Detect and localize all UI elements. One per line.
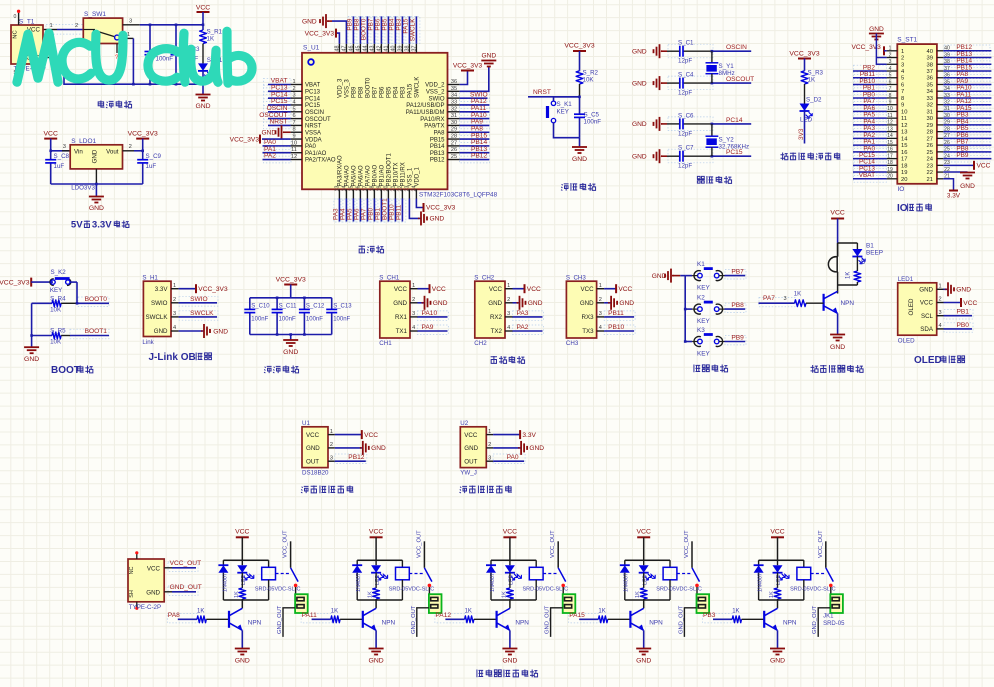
svg-text:1: 1 <box>488 429 491 435</box>
svg-text:26: 26 <box>451 147 457 153</box>
pin 45 PB8 (top) <box>359 44 361 53</box>
svg-text:PB8: PB8 <box>731 302 744 309</box>
wire node PA6 (IO left) <box>853 110 887 112</box>
svg-text:SRD-05VDC-SL-C: SRD-05VDC-SL-C <box>790 587 836 593</box>
svg-text:9: 9 <box>889 99 892 105</box>
pin 47 VSS_3 (top) <box>345 44 347 53</box>
svg-text:NPN: NPN <box>649 619 663 626</box>
transistor Q NPN (alarm) <box>822 294 824 311</box>
svg-text:GND: GND <box>283 349 298 356</box>
wire node PB10 (IO left) <box>853 83 887 85</box>
pin 10 (IO left) <box>887 110 898 112</box>
svg-text:27: 27 <box>451 140 457 146</box>
pin 3 RX2 (CH2) <box>505 316 513 318</box>
svg-text:D: D <box>861 260 866 266</box>
svg-text:10K: 10K <box>50 307 62 314</box>
svg-text:2: 2 <box>75 23 78 29</box>
pin 21 PB10/TX (bottom) <box>394 189 396 198</box>
title 声光报警电路 <box>811 365 819 373</box>
svg-text:PA7: PA7 <box>763 295 775 302</box>
svg-text:PC15: PC15 <box>305 103 321 109</box>
svg-text:9: 9 <box>901 103 904 109</box>
svg-text:GND_OUT: GND_OUT <box>277 605 283 634</box>
svg-text:S_K2: S_K2 <box>51 269 67 276</box>
svg-text:36: 36 <box>451 79 457 85</box>
svg-text:SWIO: SWIO <box>151 300 168 307</box>
pin 31 (IO right) <box>937 110 943 112</box>
svg-text:1: 1 <box>901 49 904 55</box>
svg-text:1K: 1K <box>207 36 215 43</box>
svg-text:PB9: PB9 <box>956 152 969 159</box>
svg-text:7: 7 <box>292 120 295 126</box>
svg-text:OSCIN: OSCIN <box>726 44 747 51</box>
svg-text:VCC: VCC <box>977 163 991 170</box>
capacitor S_C5 100nF <box>579 97 581 114</box>
wire node PB3 (IO right) <box>943 117 991 119</box>
wire S_SW1 pin1 down to GND rail <box>123 37 134 39</box>
pin 25 (IO right) <box>937 151 943 153</box>
svg-text:VCC_3V3: VCC_3V3 <box>128 131 158 138</box>
svg-text:2: 2 <box>889 52 892 58</box>
svg-text:BOOT1: BOOT1 <box>85 328 108 335</box>
relay coil SRD-05VDC-SL-C (PA12) <box>535 560 537 567</box>
svg-text:PB1: PB1 <box>957 309 970 316</box>
svg-text:19: 19 <box>901 170 907 176</box>
ground at VSS_1 <box>409 199 421 219</box>
pin 3 SWCLK (J-Link) <box>171 316 179 318</box>
svg-text:37: 37 <box>411 46 417 52</box>
svg-text:VCC_3V3: VCC_3V3 <box>230 136 260 143</box>
svg-text:3V3: 3V3 <box>798 128 805 140</box>
resistor 1K (relay base PA8) <box>197 616 206 623</box>
svg-text:PB12: PB12 <box>348 454 364 461</box>
svg-text:34: 34 <box>451 93 457 99</box>
wire node PB1 (IO left) <box>853 90 887 92</box>
svg-text:NC: NC <box>129 567 135 575</box>
wire node PB14 (IO right) <box>943 63 991 65</box>
pin 2 GND (U2) <box>486 447 493 449</box>
pin 46 PB9 (top) <box>352 44 354 53</box>
svg-text:44: 44 <box>362 46 368 52</box>
svg-text:OUT: OUT <box>464 458 477 465</box>
svg-text:21: 21 <box>927 177 933 183</box>
capacitor S_C8 1uF <box>50 151 52 160</box>
svg-text:PA0: PA0 <box>507 454 519 461</box>
svg-text:GND: GND <box>371 445 386 452</box>
svg-text:U1: U1 <box>302 420 310 427</box>
pin 29 PA8 (right) <box>448 131 460 133</box>
svg-text:PC14: PC14 <box>726 117 743 124</box>
pin 19 (IO left) <box>887 171 898 173</box>
svg-text:20: 20 <box>901 177 907 183</box>
svg-text:GND: GND <box>481 53 496 60</box>
ground GND (alarm) <box>837 313 839 334</box>
svg-text:GND: GND <box>869 26 884 33</box>
pin 1 (IO left) <box>887 50 898 52</box>
svg-text:VCC_3V3: VCC_3V3 <box>426 205 456 212</box>
svg-text:47: 47 <box>341 46 347 52</box>
capacitor S_C12 100nF <box>303 298 305 310</box>
svg-text:SWCLK: SWCLK <box>190 310 214 317</box>
pin 7 (IO left) <box>887 90 898 92</box>
svg-text:2: 2 <box>507 297 510 303</box>
svg-text:PB1/AO: PB1/AO <box>380 164 386 186</box>
svg-text:3: 3 <box>173 311 176 317</box>
wire node PA2 <box>263 159 291 161</box>
svg-text:S_Y1: S_Y1 <box>719 63 735 70</box>
svg-text:34: 34 <box>927 89 934 95</box>
svg-text:VCC: VCC <box>489 286 503 293</box>
svg-text:2: 2 <box>901 56 904 62</box>
svg-text:JK1: JK1 <box>823 614 834 620</box>
svg-text:29: 29 <box>927 123 933 129</box>
svg-text:30: 30 <box>927 116 933 122</box>
svg-text:SRD-05VDC-SL-C: SRD-05VDC-SL-C <box>255 587 301 593</box>
svg-text:3: 3 <box>599 311 602 317</box>
svg-text:40: 40 <box>927 49 933 55</box>
svg-text:SRD-05: SRD-05 <box>823 621 845 627</box>
svg-text:1K: 1K <box>808 77 816 84</box>
svg-text:S_R1: S_R1 <box>207 29 223 36</box>
svg-text:VSS_3: VSS_3 <box>345 79 351 98</box>
transistor NPN (relay PA8) <box>241 600 243 608</box>
svg-text:VCC_3V3: VCC_3V3 <box>0 279 30 286</box>
svg-text:1K: 1K <box>769 591 775 598</box>
pin 12 PA2/TX/AO (left) <box>291 159 302 161</box>
wire node PB0 (OLED) <box>944 328 973 330</box>
wire node PB8 <box>725 308 746 310</box>
pin 19 PB1/AO (bottom) <box>380 189 382 198</box>
wire node PB11 (CH3) <box>604 316 634 318</box>
svg-text:38: 38 <box>927 62 933 68</box>
svg-text:VBAT: VBAT <box>305 83 321 89</box>
relay cell top rail (PA15) <box>625 559 670 561</box>
svg-text:VDDA: VDDA <box>305 137 322 143</box>
pin 22 PB11/RX (bottom) <box>401 189 403 198</box>
power VCC (CH2) <box>513 288 525 290</box>
svg-text:VCC_OUT: VCC_OUT <box>170 560 202 567</box>
pin 1 VCC (CH1) <box>410 288 418 290</box>
wire node PA9 (IO right) <box>943 83 991 85</box>
svg-text:K2: K2 <box>697 295 705 302</box>
relay contact blade and VCC_OUT (PA12) <box>557 541 559 568</box>
LED (relay PA8) <box>241 560 243 565</box>
power VCC (CH1) <box>418 288 430 290</box>
wire node PB7 <box>725 275 746 277</box>
svg-text:27: 27 <box>927 136 933 142</box>
filter top rail <box>250 297 332 299</box>
svg-text:PA2: PA2 <box>517 324 529 331</box>
LED (relay PB3) <box>777 560 779 565</box>
wire node PB9 (top) <box>352 16 354 43</box>
svg-text:1K: 1K <box>635 591 641 598</box>
pin 1 VCC (CH2) <box>505 288 513 290</box>
svg-text:PB6: PB6 <box>380 86 386 98</box>
pin 2 (IO left) <box>887 57 898 59</box>
diode 1N4007 (PA11) <box>356 560 358 565</box>
wire node PC15 <box>712 155 751 157</box>
svg-text:S_C1: S_C1 <box>678 40 694 47</box>
wire node PB6 (IO right) <box>943 137 991 139</box>
svg-text:6: 6 <box>292 113 295 119</box>
key S_K1 KEY (reset button) <box>553 97 555 101</box>
svg-text:100nF: 100nF <box>584 119 602 126</box>
svg-text:1N4007: 1N4007 <box>758 573 764 592</box>
svg-text:RX3: RX3 <box>582 314 595 321</box>
svg-text:GND: GND <box>830 344 845 351</box>
ground GND (CH1) <box>418 302 425 304</box>
wire node PC13 (IO left) <box>853 171 887 173</box>
wire node PC15 <box>268 104 291 106</box>
pin 40 PB4 (top) <box>394 44 396 53</box>
relay actuation arrow (PA11) <box>383 574 388 578</box>
relay actuation arrow (PA8) <box>249 574 254 578</box>
resistor S_R4 10K <box>32 302 52 304</box>
svg-text:NPN: NPN <box>841 300 855 307</box>
wire node PB14 <box>460 145 490 147</box>
relay coil SRD-05VDC-SL-C (PB3) <box>803 560 805 567</box>
pin 27 PB14 (right) <box>448 145 460 147</box>
wire node BOOT1 <box>70 335 109 337</box>
wire node PA6 (bottom) <box>359 199 361 222</box>
svg-text:3.3V: 3.3V <box>155 286 169 293</box>
title 主芯片 <box>359 246 365 254</box>
svg-text:GND: GND <box>430 216 445 223</box>
resistor S_R1 1K <box>202 25 204 30</box>
wire node PB3 (top) <box>401 16 403 43</box>
svg-text:PA1/AO: PA1/AO <box>305 151 327 157</box>
left bus wire <box>31 303 33 346</box>
wire node PA4 (IO left) <box>853 124 887 126</box>
wire node PC14 (IO left) <box>853 164 887 166</box>
relay coil SRD-05VDC-SL-C (PA11) <box>401 560 403 567</box>
pin 34 (IO right) <box>937 90 943 92</box>
svg-text:GND: GND <box>636 658 651 665</box>
svg-text:PB7: PB7 <box>373 86 379 98</box>
svg-text:S_D2: S_D2 <box>806 97 822 104</box>
svg-text:NPN: NPN <box>382 619 396 626</box>
svg-text:OSCOUT: OSCOUT <box>726 76 754 83</box>
LED S_D1 <box>202 44 204 64</box>
svg-text:PA5/AO: PA5/AO <box>352 165 358 187</box>
pin 3 RX1 (CH1) <box>410 316 418 318</box>
capacitor S_C11 100nF <box>276 298 278 310</box>
svg-text:8: 8 <box>889 93 892 99</box>
pin 36 VDD_2 (right) <box>448 84 460 86</box>
svg-text:VCC: VCC <box>637 529 651 536</box>
svg-text:SRD-05VDC-SL-C: SRD-05VDC-SL-C <box>656 587 702 593</box>
svg-text:PA11/USB/DM: PA11/USB/DM <box>406 110 445 116</box>
GND rail of LDO block <box>51 183 143 185</box>
svg-text:GND: GND <box>235 658 250 665</box>
svg-text:VCC_OUT: VCC_OUT <box>550 530 556 558</box>
resistor 1K (relay PA12) <box>509 573 511 588</box>
resistor 1K (relay PA8) <box>241 573 243 588</box>
svg-text:VCC_3V3: VCC_3V3 <box>276 277 306 284</box>
pin 1 GND (OLED) <box>937 288 944 290</box>
svg-text:DS18B20: DS18B20 <box>302 470 329 477</box>
svg-text:S_C5: S_C5 <box>584 112 600 119</box>
svg-text:VCC: VCC <box>464 432 478 439</box>
svg-text:OLED: OLED <box>898 338 915 345</box>
svg-text:1: 1 <box>412 283 415 289</box>
svg-text:33: 33 <box>451 99 457 105</box>
svg-text:PB7: PB7 <box>731 268 744 275</box>
svg-text:5V: 5V <box>71 219 83 230</box>
diode 1N4007 (PA15) <box>624 560 626 565</box>
svg-text:2: 2 <box>938 297 941 303</box>
wire contact to terminal (PA12) <box>562 587 564 594</box>
svg-text:VBAT: VBAT <box>859 172 875 179</box>
svg-text:VCC_3V3: VCC_3V3 <box>305 30 335 37</box>
svg-text:S_R3: S_R3 <box>808 70 824 77</box>
pin 3 RX3 (CH3) <box>597 316 605 318</box>
svg-text:VCC: VCC <box>527 286 541 293</box>
svg-text:43: 43 <box>369 46 375 52</box>
pin 13 PA3/RX/AO (bottom) <box>338 189 340 198</box>
svg-text:PB2/BOOT1: PB2/BOOT1 <box>387 152 393 186</box>
svg-text:32: 32 <box>927 103 933 109</box>
svg-text:VCC_OUT: VCC_OUT <box>283 530 289 558</box>
wire node PB5 (top) <box>387 16 389 43</box>
svg-text:GND: GND <box>770 658 785 665</box>
svg-text:S_ST1: S_ST1 <box>897 37 917 44</box>
wire node PA11 <box>460 111 490 113</box>
relay actuation arrow (PA12) <box>517 574 522 578</box>
resistor 1K (relay base PB3) <box>732 616 741 623</box>
wire node PA12 (IO right) <box>943 104 991 106</box>
svg-text:STM32F103C8T6_LQFP48: STM32F103C8T6_LQFP48 <box>419 192 498 199</box>
pin 4 TX2 (CH2) <box>505 330 513 332</box>
svg-text:41: 41 <box>383 46 389 52</box>
svg-text:PB14: PB14 <box>430 144 445 150</box>
resistor 1K (alarm collector) <box>856 257 858 272</box>
svg-text:PB3: PB3 <box>401 86 407 98</box>
ground GND (relay PA15) <box>643 630 645 648</box>
svg-text:GND: GND <box>89 205 104 212</box>
svg-text:VCC: VCC <box>770 529 784 536</box>
wire node PB9 (IO right) <box>943 158 991 160</box>
pin 2 GND (CH2) <box>505 302 513 304</box>
svg-text:26: 26 <box>927 143 933 149</box>
capacitor S_C10 100nF <box>249 298 251 310</box>
svg-text:28: 28 <box>451 134 457 140</box>
svg-text:TX2: TX2 <box>491 328 503 335</box>
svg-text:4: 4 <box>507 325 510 331</box>
svg-text:PA4: PA4 <box>339 208 346 220</box>
pin 15 PA5/AO (bottom) <box>352 189 354 198</box>
svg-text:NPN: NPN <box>248 619 262 626</box>
pin 31 PA10/RX (right) <box>448 118 460 120</box>
svg-text:PB11: PB11 <box>395 204 402 220</box>
svg-text:PA12/USB/DP: PA12/USB/DP <box>406 103 444 109</box>
svg-text:IO: IO <box>897 203 908 214</box>
wire node PA3 (IO left) <box>853 131 887 133</box>
svg-text:PB5: PB5 <box>381 18 388 31</box>
svg-text:3.3V: 3.3V <box>947 193 961 200</box>
svg-text:GND: GND <box>919 287 933 294</box>
pin 11 (IO left) <box>887 117 898 119</box>
svg-text:1N4007: 1N4007 <box>222 573 228 592</box>
pin 40 (IO right) <box>937 50 943 52</box>
svg-text:2: 2 <box>488 442 491 448</box>
ground GND (filter) <box>290 335 292 340</box>
wire node NRST <box>268 124 291 126</box>
svg-text:31: 31 <box>451 113 457 119</box>
capacitor S_C13 100nF <box>331 298 333 310</box>
wire node PB13 (IO right) <box>943 57 991 59</box>
svg-text:12: 12 <box>901 123 907 129</box>
svg-text:SWCLK: SWCLK <box>145 314 168 321</box>
pin 12 (IO left) <box>887 124 898 126</box>
svg-text:PB11/RX: PB11/RX <box>401 162 407 186</box>
wire node SWIO (J-Link) <box>179 302 217 304</box>
svg-text:46: 46 <box>348 46 354 52</box>
svg-text:29: 29 <box>451 127 457 133</box>
svg-text:GND: GND <box>262 129 277 136</box>
svg-text:6: 6 <box>901 82 904 88</box>
svg-text:VCC: VCC <box>196 5 210 12</box>
svg-text:1: 1 <box>173 283 176 289</box>
wire node BOOT0 <box>76 302 79 305</box>
svg-text:OUT: OUT <box>306 458 319 465</box>
wire node PA2 (IO left) <box>853 137 887 139</box>
pin 21 (IO right) <box>937 178 943 180</box>
svg-text:PA15: PA15 <box>408 83 414 98</box>
wire key to BOOT0 row <box>70 281 77 283</box>
wire node PC13 <box>268 90 291 92</box>
svg-text:1: 1 <box>330 429 333 435</box>
wire node PB8 (top) <box>359 16 361 43</box>
svg-text:10K: 10K <box>50 339 62 346</box>
svg-text:VCC: VCC <box>581 286 595 293</box>
keys bus wire <box>680 275 685 277</box>
transistor NPN (relay PA12) <box>509 600 511 608</box>
svg-text:100nF: 100nF <box>279 317 296 323</box>
svg-text:1K: 1K <box>368 591 374 598</box>
junction at C8 tap <box>49 150 52 153</box>
junction GND rail <box>132 83 135 86</box>
wire node PC14 <box>268 97 291 99</box>
svg-text:PC14: PC14 <box>305 96 321 102</box>
svg-text:19: 19 <box>887 167 893 173</box>
svg-text:1K: 1K <box>234 591 240 598</box>
pin 22 (IO right) <box>937 171 943 173</box>
pin 30 (IO right) <box>937 117 943 119</box>
pin 17 (IO left) <box>887 158 898 160</box>
svg-text:3: 3 <box>488 455 491 461</box>
svg-text:1: 1 <box>938 284 941 290</box>
wire node PA15 (relay input) <box>579 618 598 620</box>
title 继电器控制电路 <box>477 670 483 678</box>
svg-text:PB15: PB15 <box>430 137 445 143</box>
wire node PB10 (bottom) <box>394 199 396 222</box>
svg-text:VCC: VCC <box>394 286 408 293</box>
wire node PA10 (CH1) <box>418 316 448 318</box>
relay coil SRD-05VDC-SL-C (PA15) <box>669 560 671 567</box>
wire node PB15 <box>460 138 490 140</box>
svg-text:SDA: SDA <box>920 326 934 333</box>
transistor NPN (relay PA15) <box>643 600 645 608</box>
svg-text:GND: GND <box>956 287 971 294</box>
title 晶振电路 <box>697 176 705 183</box>
svg-text:Vout: Vout <box>106 148 119 155</box>
capacitor S_C4 12pF <box>667 82 680 84</box>
svg-text:S_C13: S_C13 <box>333 304 352 310</box>
svg-text:K3: K3 <box>697 327 705 334</box>
svg-text:2: 2 <box>292 86 295 92</box>
svg-text:PA2/TX/AO: PA2/TX/AO <box>305 158 336 164</box>
